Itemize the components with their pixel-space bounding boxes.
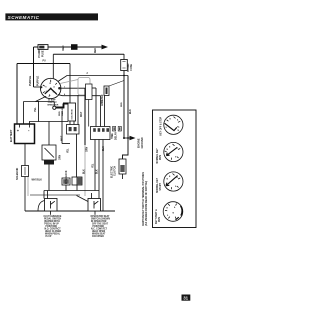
wire SB9 diagonal [109,81,124,87]
wire module pin riser B [100,96,102,127]
wire clutch stub [122,174,124,179]
svg-text:RED: RED [95,48,97,53]
connector pins row [113,127,122,132]
wire bar drop [61,111,63,144]
wire SW1 bottom stub [50,211,52,215]
svg-text:(AS VIEWED FROM REAR OF SWITCH: (AS VIEWED FROM REAR OF SWITCH) [145,181,148,226]
svg-text:AMMETER: AMMETER [101,94,104,106]
svg-text:START: START [159,183,162,191]
wire relay to CB2 pins [70,121,74,125]
title bar SCHEMATIC [5,13,98,20]
two cell connector [72,177,82,185]
wire B horizontal [53,53,124,55]
switch position circle 2 [164,142,183,161]
circuit breaker lead [24,144,26,166]
wire to CB2 [62,143,70,145]
svg-text:BLK: BLK [97,169,99,174]
connector CN1 [71,44,78,50]
circle 4 letters [167,206,177,217]
connector black [44,160,54,165]
wire battery plus riser [23,102,25,125]
svg-text:NORMAL KEY: NORMAL KEY [156,177,159,193]
node ground junction [123,137,125,139]
svg-text:BLK: BLK [130,109,132,114]
wire to solenoid ring [36,102,55,107]
wire CB3 down [65,185,67,191]
svg-text:OCCUPIED: OCCUPIED [92,236,104,238]
svg-text:FUSE: FUSE [41,50,44,57]
circuit breaker [22,166,29,177]
wire headlight feed [48,122,50,146]
wire TC down [76,185,78,191]
wire switch lower-left diagonal [24,96,47,101]
harness line H2 [30,194,80,196]
wire SW2 pin [91,193,93,199]
module pin to SW2 [98,140,100,199]
switch position circle 3 [164,172,183,191]
fuse F2 [121,60,128,71]
svg-text:RUN: RUN [159,217,161,222]
svg-text:GROUND: GROUND [141,137,144,148]
electric clutch [119,159,126,174]
svg-text:SOLENOID: SOLENOID [71,108,73,119]
connector box CB3 [62,178,70,185]
bus ground line [25,210,115,212]
label SW2 caption [91,215,111,238]
svg-text:PURPLE: PURPLE [37,76,40,86]
svg-text:DELAY: DELAY [114,132,117,140]
wire riser x38 [36,102,39,122]
wire switch top to wire B [52,54,54,78]
page number box [182,295,191,301]
ammeter box SB9 [104,86,109,96]
solenoid thick lead [56,104,68,109]
main bus x85 [84,88,86,145]
module pin to bus [102,140,104,212]
arrow engine ground [130,136,136,140]
svg-text:YEL: YEL [68,148,70,153]
indicator box SB8 [86,84,93,100]
arrow to starter [102,45,109,50]
fuse F2 drop [123,54,125,60]
svg-text:PU: PU [43,61,47,63]
gray highlight path [28,78,90,197]
switch position circle 1 [164,115,183,134]
wire SB8 bottom pin [88,100,90,127]
svg-text:WHT/BLK: WHT/BLK [32,180,43,182]
switch position circle 4 [163,202,183,222]
terminal ring [53,106,56,109]
svg-text:WHT: WHT [81,111,83,117]
svg-text:ORN: ORN [60,155,62,160]
label terminal rows [48,98,59,106]
label SW1 caption [44,215,62,238]
headlight switch box [42,145,56,160]
wire switch left [34,86,41,88]
svg-text:BREAKER: BREAKER [48,103,59,106]
wire CB2 right riser [77,95,79,125]
svg-text:YEL: YEL [92,163,94,168]
key switch terminal letters [45,83,55,96]
svg-text:2: 2 [87,73,89,75]
svg-text:BATTERY: BATTERY [9,129,13,142]
wire CB2 down [76,134,78,177]
svg-text:SCHEMATIC: SCHEMATIC [8,15,40,20]
svg-text:SOLENOID: SOLENOID [17,168,19,180]
wire SB9 bottom pin [104,96,106,127]
seat switch SW2 [77,196,101,212]
svg-text:31: 31 [183,296,188,301]
key switch KS1 [40,78,61,98]
wire SB8 to module riser [92,87,96,89]
starter solenoid box [68,103,76,121]
svg-text:CLUTCH: CLUTCH [114,166,117,176]
wire to engine ground [124,137,130,139]
circle 1 letters [166,119,180,133]
svg-text:NORMAL KEY: NORMAL KEY [156,148,159,164]
svg-text:RED: RED [63,45,65,50]
wire breaker to bus [24,177,26,212]
svg-text:KEY OFF & STOP: KEY OFF & STOP [161,116,163,135]
svg-text:YEL: YEL [34,107,37,112]
wire riser x70 [69,64,71,104]
clutch/brake switch SW1 [38,199,57,212]
wire battery left riser [16,64,18,125]
circle 2 letters [167,147,179,159]
svg-text:KEY START &: KEY START & [155,209,158,224]
harness line H1 [44,190,99,192]
svg-text:IS UP: IS UP [46,236,52,238]
battery [15,124,35,144]
node accessory junction [123,75,125,77]
svg-text:BLK: BLK [83,169,85,174]
interlock module [91,127,111,140]
wire W4 fuse to ground junction [123,71,125,139]
svg-text:INTERLOCK: INTERLOCK [66,170,68,184]
wire switch to accessory line [58,76,128,82]
wire headlight down [48,165,50,191]
fuse F1 [38,45,48,50]
circle 3 letters [167,176,179,188]
wire battery minus step [30,122,69,125]
module pin to H1 [94,140,96,191]
wire SW2 bottom stub [94,211,96,215]
wire module pin riser A [95,88,97,127]
svg-text:FUSE: FUSE [130,64,133,71]
wire battery feed top [34,46,102,48]
wire switch right low [58,95,101,96]
wire C horizontal [17,63,70,65]
wire W2 left drop [33,47,35,87]
key switch positions panel [153,110,197,228]
electric clutch feed [123,76,129,160]
wire switch right mid [61,87,86,89]
svg-text:PURPLE: PURPLE [29,76,32,86]
wire H1 left drop [43,191,45,199]
svg-text:RED: RED [121,102,123,107]
connector box CB2 [67,125,80,135]
svg-text:RUN: RUN [160,155,162,160]
wire SW1 pin [47,191,49,199]
svg-text:GRN: GRN [87,147,89,152]
svg-text:RED: RED [59,111,61,116]
